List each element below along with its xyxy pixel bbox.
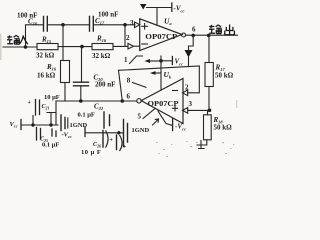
wire node A down to R16 vertical — [62, 25, 64, 61]
node +V b — [49, 123, 52, 126]
pin 5 lead — [143, 109, 155, 119]
capacitor C16 plates — [44, 17, 48, 32]
wire mid node down to C20 — [81, 47, 83, 83]
arrow feedback down — [185, 50, 193, 58]
cap 0.1uF mid plates — [104, 112, 110, 128]
power bar Vcc entry — [20, 120, 22, 130]
node input junction — [24, 45, 28, 49]
svg-text:+: + — [28, 100, 32, 106]
node mid junction — [80, 45, 84, 49]
op-amp U1 output bubble — [182, 33, 186, 37]
op-amp U1 triangle — [140, 19, 182, 51]
op-amp U1 minus input mark — [142, 43, 148, 45]
capacitor C21 plates — [36, 100, 40, 116]
wire U1 output — [185, 34, 237, 36]
node pin3 junction — [208, 109, 212, 113]
wire R16v to bus — [64, 83, 66, 102]
node bus feedback junction — [121, 99, 125, 103]
op-amp U2 minus mark — [173, 90, 178, 92]
pin 3 marker U2 — [183, 108, 188, 114]
wire V+ pin op2 — [160, 56, 162, 90]
wire input node up to C16 — [26, 25, 44, 47]
svg-text:8: 8 — [127, 76, 131, 84]
capacitor C20 plates — [74, 82, 89, 86]
svg-text:32 kΩ: 32 kΩ — [92, 52, 111, 60]
wire R17 from output — [208, 35, 210, 62]
trim arrowhead 1 — [145, 59, 151, 63]
wire C17 to pin3 node — [94, 24, 136, 26]
resistor R15 body — [37, 44, 58, 50]
wire R15 to R16 — [58, 46, 92, 48]
capacitor C17 plates — [90, 17, 94, 32]
svg-text:+: + — [110, 138, 114, 144]
resistor R17 body — [205, 63, 213, 87]
electrolytic D plates — [102, 131, 104, 148]
cap below rail plates b — [52, 129, 56, 137]
wire R18 to ground — [197, 140, 207, 145]
text input CJK — [7, 35, 28, 44]
svg-text:10 μ F: 10 μ F — [81, 149, 101, 156]
wire -V rail — [86, 132, 123, 134]
svg-text:3: 3 — [130, 19, 134, 27]
wire pin3 node down to main wire — [124, 25, 126, 47]
svg-text:2: 2 — [126, 34, 130, 42]
svg-text:1GND: 1GND — [132, 127, 150, 134]
svg-text:OP07CP: OP07CP — [145, 34, 177, 41]
svg-text:0.1 μF: 0.1 μF — [42, 142, 59, 149]
node output junction 1 — [191, 34, 195, 38]
bus wire op2 output left run — [56, 100, 137, 102]
svg-text:10 μF: 10 μF — [44, 94, 60, 101]
power bar pin4 — [172, 119, 174, 131]
svg-text:16 kΩ: 16 kΩ — [37, 71, 56, 79]
wire C20 to bus — [80, 86, 82, 101]
power bar U1 — [171, 3, 173, 11]
op-amp U2 triangle — [141, 79, 183, 124]
pin 2 marker — [128, 43, 140, 49]
svg-text:OP07CP: OP07CP — [148, 101, 179, 108]
svg-text:1: 1 — [124, 56, 128, 64]
trim arrowhead 2 — [150, 71, 156, 75]
svg-text:+: + — [123, 145, 127, 151]
node trim junction — [159, 59, 163, 63]
node pin3 junction — [123, 23, 127, 27]
node +V a — [31, 123, 34, 126]
svg-text:6: 6 — [192, 26, 196, 34]
power bar trim — [171, 57, 173, 65]
electrolytic E plates — [116, 135, 118, 150]
resistor R18 body — [204, 115, 212, 140]
pin 4 lead — [158, 111, 172, 125]
wire arrow to loop line — [188, 58, 190, 67]
node A junction — [61, 23, 65, 27]
wire loop vertical left — [119, 70, 123, 101]
op-amp U2 plus mark — [173, 106, 178, 111]
trim wiper arrow 1 — [148, 60, 161, 62]
svg-text:3: 3 — [189, 100, 193, 108]
cap below rail plates a — [37, 128, 41, 141]
wire R17 to pin3 node — [208, 87, 210, 111]
op-amp U1 V+ lead — [147, 8, 172, 26]
svg-text:1GND: 1GND — [70, 122, 88, 129]
svg-text:100 nF: 100 nF — [98, 10, 118, 18]
wire feedback from output — [189, 35, 194, 50]
pin 3 marker — [135, 22, 140, 28]
wire bus left end down — [55, 101, 57, 125]
text output CJK — [209, 25, 234, 35]
wire pin3 to node — [188, 109, 211, 111]
wire long loop line — [119, 66, 200, 70]
svg-text:2: 2 — [185, 83, 189, 91]
wire trim to Vcc — [161, 60, 172, 62]
svg-text:C26: C26 — [93, 142, 101, 149]
svg-text:C21: C21 — [42, 104, 50, 111]
svg-text:50 kΩ: 50 kΩ — [215, 72, 234, 80]
op-amp U1 plus input mark — [142, 24, 148, 30]
bracket tick B — [67, 118, 69, 128]
node bus C20 junction — [79, 99, 83, 103]
paper noise speckles — [0, 34, 238, 157]
op-amp U2 output bubble — [137, 99, 141, 103]
ground symbol R18 — [199, 141, 205, 149]
svg-text:50 kΩ: 50 kΩ — [214, 124, 233, 132]
wire R16 to op-amp pin 2 — [113, 45, 128, 47]
wire riser C21 to rail — [32, 116, 34, 126]
node -V rail — [117, 131, 120, 134]
wire C16 to node A — [48, 24, 90, 26]
svg-text:6: 6 — [127, 92, 131, 100]
wire loop right vertical to pin2 — [188, 66, 200, 93]
minus V tick — [84, 127, 86, 137]
wire node to R18 — [207, 110, 209, 114]
pin 2 marker U2 — [183, 90, 188, 96]
trim pin 1 lead — [130, 56, 143, 64]
electrolytic D curve — [106, 131, 108, 147]
svg-text:5: 5 — [138, 113, 142, 121]
svg-text:0.1 μF: 0.1 μF — [78, 112, 95, 119]
electrolytic E curve — [120, 136, 122, 151]
wire input to R15 — [3, 46, 37, 48]
trim wiper arrow 2 — [154, 72, 161, 74]
resistor R16 vertical body — [61, 61, 70, 83]
svg-text:200 nF: 200 nF — [95, 81, 115, 89]
node output junction 2 — [207, 34, 211, 38]
wire riser b — [47, 113, 55, 126]
cap B plates — [61, 115, 65, 131]
svg-text:32 kΩ: 32 kΩ — [36, 52, 55, 60]
cap C right plates — [124, 120, 128, 147]
trim pin 8 lead — [133, 83, 147, 88]
power arrow U1 — [140, 4, 147, 10]
gnd arrow diag — [153, 119, 159, 125]
wire +V rail — [21, 124, 58, 126]
resistor R16 horizontal body — [92, 44, 113, 50]
